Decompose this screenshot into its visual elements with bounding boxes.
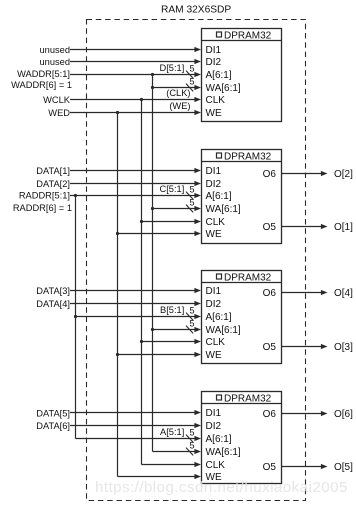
vertical WED bus wire [117,113,119,477]
svg-text:RAM 32X6SDP: RAM 32X6SDP [161,5,231,16]
svg-text:DATA[6]: DATA[6] [36,421,70,431]
svg-text:WA[6:1]: WA[6:1] [206,83,241,94]
arrowhead at O[5] [321,464,328,469]
arrowhead at O[3] [321,344,328,349]
dashed macro boundary box [87,20,306,501]
wire U2 O5 to O[1] [282,226,322,228]
arrowhead into U1 CLK [194,97,201,102]
wire WED to U1 WE [70,112,196,114]
svg-text:WA[6:1]: WA[6:1] [206,325,241,336]
arrowhead into U2 WA[6:1] [194,206,201,211]
svg-text:O[5]: O[5] [334,462,353,473]
bus width slash 5 on WADDR branch to U3 WA[6:1] [186,326,193,334]
wire DATA[3] to U3 DI1 [70,290,196,292]
svg-text:O6: O6 [263,169,277,180]
svg-text:5: 5 [189,428,194,438]
svg-text:5: 5 [189,185,194,195]
svg-text:O[3]: O[3] [334,342,353,353]
bus width slash 5 on RADDR[5:1] bus C[5:1] to U2 A[6:1] [186,192,193,200]
wire U4 O6 to O[6] [282,413,322,415]
svg-text:5: 5 [189,198,194,208]
wire WADDR branch to U1 WA[6:1] [153,87,196,89]
arrowhead at O[6] [321,411,328,416]
svg-text:DATA[2]: DATA[2] [36,179,70,189]
arrowhead into U1 DI1 [194,47,201,52]
svg-text:A[6:1]: A[6:1] [206,312,232,323]
svg-text:(CLK): (CLK) [166,88,190,98]
svg-text:5: 5 [189,64,194,74]
junction WADDR bus at U1 WA row [151,86,154,89]
wire unused to U1 DI1 [70,49,196,51]
svg-text:WE: WE [206,108,222,119]
svg-text:DI2: DI2 [206,421,222,432]
bus width slash 5 on WADDR[5:1] bus D[5:1] to U1 A[6:1] [186,71,193,79]
svg-text:O6: O6 [263,409,277,420]
arrowhead into U1 DI2 [194,59,201,64]
wire WADDR[5:1] bus D[5:1] to U1 A[6:1] [70,74,196,76]
svg-text:O[4]: O[4] [334,288,353,299]
U4 header separator [202,403,282,405]
junction WADDR bus at U3 WA row [151,328,154,331]
DPRAM32 block U2 outline [202,150,282,244]
svg-text:A[5:1]: A[5:1] [160,427,184,437]
svg-text:5: 5 [189,306,194,316]
U3 header separator [202,282,282,284]
junction WCLK bus at U1 CLK row [140,98,143,101]
bus width slash 5 on WADDR branch to U2 WA[6:1] [186,205,193,213]
svg-text:A[6:1]: A[6:1] [206,191,232,202]
svg-text:DATA[5]: DATA[5] [36,408,70,418]
arrowhead into U1 WE [194,110,201,115]
wire DATA[6] to U4 DI2 [70,425,196,427]
svg-text:O5: O5 [263,342,277,353]
svg-text:DPRAM32: DPRAM32 [224,273,272,284]
svg-text:CLK: CLK [206,217,226,228]
svg-text:B[5:1]: B[5:1] [160,305,184,315]
U4 header square icon [217,395,222,400]
arrowhead into U1 A[6:1] [194,72,201,77]
DPRAM32 block U4 outline [202,392,282,484]
arrowhead into U4 WE [194,474,201,479]
svg-text:A[6:1]: A[6:1] [206,70,232,81]
arrowhead at O[4] [321,290,328,295]
bus width slash 5 on RADDR branch bus B[5:1] to U3 A[6:1] [186,313,193,321]
wire WED branch to U2 WE [118,233,196,235]
U3 header square icon [217,274,222,279]
svg-text:O[6]: O[6] [334,409,353,420]
svg-text:WE: WE [206,229,222,240]
svg-text:DI2: DI2 [206,57,222,68]
junction WED bus at U2 WE row [116,232,119,235]
svg-text:DPRAM32: DPRAM32 [224,31,272,42]
svg-text:DI2: DI2 [206,179,222,190]
junction WADDR bus at U2 WA row [151,207,154,210]
svg-text:O5: O5 [263,462,277,473]
wire RADDR[5:1] bus C[5:1] to U2 A[6:1] [70,195,196,197]
svg-text:O[1]: O[1] [334,222,353,233]
arrowhead into U4 WA[6:1] [194,449,201,454]
wire WED branch to U3 WE [118,354,196,356]
wire U3 O5 to O[3] [282,346,322,348]
svg-text:https://blog.csdn.net/huxiaoka: https://blog.csdn.net/huxiaokai2005 [95,479,348,496]
wire WADDR branch to U2 WA[6:1] [153,208,196,210]
svg-text:DATA[4]: DATA[4] [36,299,70,309]
svg-text:O5: O5 [263,222,277,233]
junction WADDR bus at U1 A row [151,73,154,76]
svg-text:unused: unused [39,57,70,67]
arrowhead into U4 DI1 [194,410,201,415]
wire U4 O5 to O[5] [282,466,322,468]
arrowhead at O[2] [321,171,328,176]
wire WADDR branch to U4 WA[6:1] [153,451,196,453]
arrowhead into U2 CLK [194,219,201,224]
arrowhead into U4 DI2 [194,423,201,428]
bus width slash 5 on WADDR branch to U1 WA[6:1] [186,84,193,92]
svg-text:WE: WE [206,350,222,361]
wire U3 O6 to O[4] [282,292,322,294]
svg-text:O[2]: O[2] [334,169,353,180]
DPRAM32 block U3 outline [202,271,282,364]
svg-text:unused: unused [39,45,70,55]
svg-text:DI1: DI1 [206,166,222,177]
svg-text:WCLK: WCLK [43,95,71,105]
svg-text:DPRAM32: DPRAM32 [224,394,272,405]
svg-text:C[5:1]: C[5:1] [159,184,184,194]
svg-text:(WE): (WE) [169,101,190,111]
svg-text:WADDR[5:1]: WADDR[5:1] [17,69,70,79]
svg-text:WA[6:1]: WA[6:1] [206,447,241,458]
bus width slash 5 on RADDR branch bus A[5:1] to U4 A[6:1] [186,435,193,443]
arrowhead into U3 CLK [194,339,201,344]
svg-text:DI2: DI2 [206,299,222,310]
svg-text:O6: O6 [263,288,277,299]
arrowhead into U3 WA[6:1] [194,327,201,332]
arrowhead into U3 A[6:1] [194,314,201,319]
junction WED bus at U1 WE row [116,111,119,114]
svg-text:5: 5 [189,441,194,451]
arrowhead into U2 DI1 [194,168,201,173]
svg-text:WADDR[6] = 1: WADDR[6] = 1 [11,80,72,90]
svg-text:DI1: DI1 [206,45,222,56]
wire WCLK branch to U3 CLK [142,341,196,343]
arrowhead into U3 DI1 [194,288,201,293]
arrowhead into U1 WA[6:1] [194,85,201,90]
bus width slash 5 on WADDR branch to U4 WA[6:1] [186,448,193,456]
U1 header square icon [217,32,222,37]
arrowhead into U2 DI2 [194,181,201,186]
arrowhead into U3 DI2 [194,301,201,306]
svg-text:CLK: CLK [206,460,226,471]
wire WADDR branch to U3 WA[6:1] [153,329,196,331]
wire DATA[5] to U4 DI1 [70,412,196,414]
wire WCLK branch to U2 CLK [142,221,196,223]
svg-text:DATA[3]: DATA[3] [36,286,70,296]
junction RADDR bus at U3 A row [74,315,77,318]
svg-text:WA[6:1]: WA[6:1] [206,204,241,215]
svg-text:5: 5 [189,319,194,329]
svg-text:CLK: CLK [206,337,226,348]
arrowhead into U4 A[6:1] [194,436,201,441]
DPRAM32 block U1 outline [202,29,282,122]
junction WED bus at U3 WE row [116,353,119,356]
arrowhead into U4 CLK [194,462,201,467]
svg-text:D[5:1]: D[5:1] [159,63,184,73]
junction WCLK bus at U2 CLK row [140,220,143,223]
svg-text:DI1: DI1 [206,408,222,419]
svg-text:DATA[1]: DATA[1] [36,166,70,176]
wire U2 O6 to O[2] [282,173,322,175]
U2 header separator [202,161,282,163]
wire DATA[2] to U2 DI2 [70,183,196,185]
svg-text:CLK: CLK [206,95,226,106]
svg-text:5: 5 [189,77,194,87]
arrowhead into U2 A[6:1] [194,193,201,198]
wire DATA[4] to U3 DI2 [70,303,196,305]
U2 header square icon [217,153,222,158]
junction WCLK bus at U3 CLK row [140,340,143,343]
wire RADDR branch bus B[5:1] to U3 A[6:1] [76,316,196,318]
arrowhead into U3 WE [194,352,201,357]
wire DATA[1] to U2 DI1 [70,170,196,172]
svg-text:RADDR[5:1]: RADDR[5:1] [19,191,70,201]
wire WCLK to U1 CLK [70,99,196,101]
wire unused to U1 DI2 [70,61,196,63]
arrowhead into U2 WE [194,231,201,236]
U1 header separator [202,40,282,42]
vertical WADDR bus wire [152,75,154,452]
wire WED branch to U4 WE [118,476,196,478]
junction RADDR bus at RADDR[5:1] wire [74,194,77,197]
vertical RADDR bus wire [75,196,77,439]
wire WCLK branch to U4 CLK [142,464,196,466]
arrowhead at O[1] [321,224,328,229]
svg-text:A[6:1]: A[6:1] [206,434,232,445]
svg-text:DPRAM32: DPRAM32 [224,152,272,163]
vertical WCLK bus wire [141,100,143,465]
svg-text:WED: WED [48,108,70,118]
svg-text:DI1: DI1 [206,286,222,297]
svg-text:RADDR[6] = 1: RADDR[6] = 1 [13,203,72,213]
wire RADDR branch bus A[5:1] to U4 A[6:1] [76,438,196,440]
